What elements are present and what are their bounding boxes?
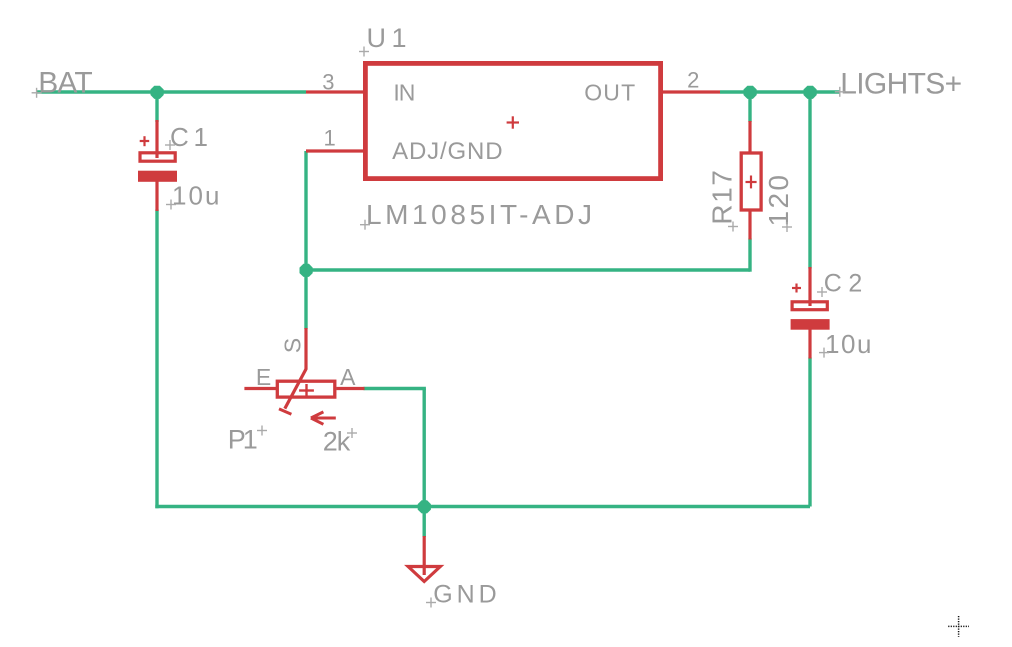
P1 adjust arrow	[311, 412, 336, 424]
value 2k	[323, 427, 351, 457]
svg-text:P1: P1	[228, 425, 258, 455]
origin cross 10u C2	[819, 348, 829, 358]
potentiometer P1 body	[277, 381, 335, 397]
label 10u (C2)	[825, 329, 872, 359]
junction OUT/R17	[744, 86, 757, 99]
svg-text:120: 120	[763, 175, 794, 227]
origin cross LM1085IT-ADJ	[360, 220, 370, 230]
mouse crosshair cursor	[948, 616, 969, 637]
pin number 3	[322, 70, 334, 95]
origin cross C2	[817, 287, 827, 297]
svg-text:R17: R17	[707, 170, 738, 225]
pin name ADJ/GND	[392, 138, 503, 165]
capacitor C1 bottom pin	[155, 181, 158, 211]
junction BAT/C1	[151, 86, 164, 99]
origin cross GND	[426, 598, 436, 608]
svg-text:LM1085IT-ADJ: LM1085IT-ADJ	[366, 199, 592, 230]
svg-text:2k: 2k	[323, 427, 351, 457]
C1 polarity plus	[140, 136, 150, 146]
wire C2 top vertical	[808, 92, 811, 269]
wire bottom GND rail horizontal	[155, 505, 810, 508]
capacitor C2 top pin	[808, 267, 811, 306]
junction LIGHTS+/C2	[804, 86, 817, 99]
U1 pin 1 ADJ/GND	[306, 149, 364, 152]
label R17 (rotated)	[707, 170, 738, 225]
junction ADJ node	[300, 264, 313, 277]
svg-text:S: S	[279, 338, 305, 353]
origin cross R17	[728, 222, 738, 232]
origin cross U1	[359, 47, 369, 57]
origin cross 120	[782, 222, 792, 232]
svg-text:1: 1	[324, 126, 336, 151]
label P1	[228, 425, 258, 455]
wire C1 top vertical	[155, 92, 158, 122]
origin cross LIGHTS+	[835, 87, 845, 97]
origin cross P1	[257, 426, 267, 436]
label 10u (C1)	[172, 181, 220, 211]
P1 wiper end bar	[279, 409, 291, 414]
net label BAT	[38, 66, 92, 99]
origin cross 2k	[347, 428, 357, 438]
resistor R17 top pin	[748, 121, 751, 152]
pin number 1	[324, 126, 336, 151]
pin name E	[256, 364, 271, 390]
ground symbol triangle	[408, 567, 440, 582]
P1 A pin	[336, 387, 364, 390]
capacitor C1 bottom plate	[138, 171, 177, 182]
capacitor C2 top plate	[792, 302, 827, 310]
svg-text:OUT: OUT	[584, 80, 635, 106]
label U1	[367, 23, 407, 53]
pin name IN	[393, 80, 415, 106]
wire net LIGHTS+ from pin 2	[720, 90, 840, 93]
P1 S pin vertical	[304, 328, 307, 369]
wire C2 bottom vertical	[808, 358, 811, 507]
svg-text:2: 2	[687, 68, 699, 93]
pin name S (rotated)	[279, 338, 305, 353]
ground symbol pin	[423, 536, 426, 575]
resistor R17 body	[741, 153, 761, 210]
net label LIGHTS+	[840, 68, 962, 101]
wire C1 bottom to bottom rail	[155, 210, 158, 509]
pin number 2	[687, 68, 699, 93]
capacitor C2 bottom plate	[791, 319, 830, 330]
R17 origin cross	[746, 176, 757, 189]
svg-text:BAT: BAT	[38, 66, 92, 99]
U1 pin 2 OUT	[662, 90, 720, 93]
svg-text:10u: 10u	[172, 181, 220, 211]
value 120 (rotated)	[763, 175, 794, 227]
svg-text:A: A	[340, 364, 356, 390]
wire net BAT horizontal	[37, 90, 306, 93]
C2 polarity plus	[792, 284, 801, 293]
svg-text:IN: IN	[393, 80, 415, 106]
resistor R17 bottom pin	[748, 211, 751, 240]
origin cross C1	[165, 140, 175, 150]
wire mid ADJ horizontal	[306, 268, 750, 271]
P1 wiper diagonal	[285, 369, 307, 409]
capacitor C2 bottom pin	[808, 329, 811, 359]
origin cross BAT	[32, 88, 42, 98]
U1 origin cross	[507, 116, 519, 128]
P1 origin plus	[299, 384, 314, 397]
wire P1 A-pin horizontal	[364, 387, 426, 390]
label LM1085IT-ADJ	[366, 199, 592, 230]
P1 E pin	[244, 387, 276, 390]
svg-text:LIGHTS+: LIGHTS+	[840, 68, 962, 101]
wire GND stub vertical	[423, 507, 426, 538]
capacitor C1 top pin	[155, 120, 158, 158]
op-amp U1 regulator box	[365, 63, 660, 178]
pin name OUT	[584, 80, 635, 106]
wire R17 top vertical	[748, 92, 751, 122]
label GND	[433, 581, 497, 609]
origin cross 10u C1	[166, 200, 176, 210]
U1 pin 3 IN	[306, 90, 364, 93]
wire R17 bottom vertical	[748, 239, 751, 272]
svg-text:3: 3	[322, 70, 334, 95]
label C1	[170, 122, 208, 152]
wire ADJ vertical from pin 1	[304, 151, 307, 329]
svg-text:E: E	[256, 364, 271, 390]
svg-text:10u: 10u	[825, 329, 872, 359]
junction GND node	[418, 500, 431, 513]
wire P1 A-pin vertical	[423, 389, 426, 507]
svg-text:ADJ/GND: ADJ/GND	[392, 138, 503, 165]
capacitor C1 top plate	[140, 153, 175, 161]
label C2	[824, 270, 863, 298]
svg-text:GND: GND	[433, 581, 497, 609]
pin name A	[340, 364, 356, 390]
